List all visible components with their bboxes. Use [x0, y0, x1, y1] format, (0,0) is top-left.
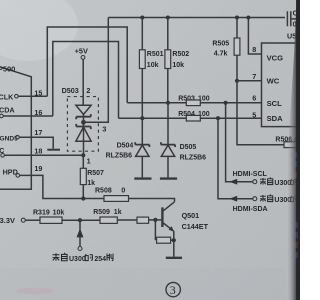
- arrow HDMI-SCL: [229, 179, 237, 185]
- svg-text:RLZ5B6: RLZ5B6: [180, 154, 207, 161]
- zener D505: [167, 103, 169, 145]
- wire CLK bridge up-over-down to SCL: [47, 27, 127, 103]
- ground stub bar pin17: [47, 149, 60, 151]
- connector P500 body: [0, 66, 31, 189]
- junction R507/HPD/R508: [81, 196, 85, 200]
- pin 18 terminal circle: [1, 154, 5, 158]
- resistor R502: [166, 16, 170, 20]
- wire pin7 WC: [237, 80, 262, 82]
- svg-text:6: 6: [252, 94, 256, 103]
- svg-text:4.7k: 4.7k: [214, 51, 228, 58]
- right dark band (book gutter): [288, 0, 300, 300]
- svg-text:R319: R319: [33, 210, 50, 217]
- wire HDMI-SCL takeoff: [226, 103, 253, 182]
- +5V terminal circle: [81, 56, 85, 60]
- resistor R507: [82, 155, 84, 168]
- page number circle 3: [166, 282, 180, 296]
- pin CLK terminal circle: [15, 94, 19, 98]
- svg-text:2: 2: [86, 86, 90, 95]
- resistor R505: [235, 16, 239, 20]
- svg-text:D504: D504: [117, 143, 134, 150]
- wire R508 to Q501 collector: [83, 199, 174, 202]
- wire +5V to D503 pin2: [82, 59, 84, 105]
- svg-text:3: 3: [170, 283, 176, 297]
- svg-text:10k: 10k: [147, 62, 159, 69]
- D503 zener 2 (bottom, cathode up): [76, 124, 91, 129]
- junction base node: [153, 218, 157, 222]
- svg-text:VCG: VCG: [267, 53, 284, 62]
- resistor R501: [140, 16, 144, 20]
- junction base line / U300-254 feed: [78, 218, 82, 222]
- svg-text:19: 19: [34, 164, 42, 173]
- resistor base-emitter (unlabeled): [154, 220, 156, 240]
- svg-text:10k: 10k: [172, 62, 184, 69]
- svg-text:254: 254: [94, 256, 106, 263]
- junction R505/WC/R506: [235, 79, 239, 83]
- wire GND5 pin17 to stub: [19, 137, 53, 148]
- svg-text:0: 0: [121, 188, 125, 195]
- svg-text:CDA: CDA: [0, 105, 15, 114]
- svg-text:R507: R507: [87, 170, 104, 177]
- svg-text:C144ET: C144ET: [182, 222, 209, 231]
- terminal from U300 pin254: [79, 220, 81, 246]
- D503 center junction dot: [81, 120, 86, 125]
- svg-text:18: 18: [34, 146, 42, 155]
- wire pin8 VCG from rail: [246, 16, 250, 20]
- junction pin18/D503/R507: [81, 153, 85, 157]
- wire D503 pin1 down: [83, 141, 85, 155]
- svg-text:Q501: Q501: [182, 211, 200, 220]
- D503 dashed package box: [67, 97, 98, 152]
- svg-text:17: 17: [34, 128, 42, 137]
- svg-text:+5V: +5V: [75, 47, 88, 56]
- svg-text:D505: D505: [180, 144, 197, 151]
- terminal HDMI-SDA: [253, 197, 257, 201]
- svg-text:R502: R502: [172, 51, 189, 58]
- svg-text:U300: U300: [69, 256, 86, 263]
- svg-text:1k: 1k: [87, 180, 95, 187]
- svg-text:R509: R509: [93, 209, 110, 216]
- svg-text:10k: 10k: [53, 210, 65, 217]
- wire D503 pin3 to top rail: [84, 18, 109, 123]
- svg-text:-3.3V: -3.3V: [0, 216, 15, 225]
- pin GND5 terminal circle: [16, 135, 20, 139]
- junction SCL/HDMI-SCL: [224, 101, 228, 105]
- zener D504: [141, 118, 143, 144]
- wire base node to Q501 base: [155, 219, 161, 221]
- wire HPD pin19 down to R508 row: [20, 175, 84, 198]
- terminal HDMI-SCL: [253, 180, 257, 184]
- junction R501/D504 on SDA: [140, 116, 144, 120]
- ground D504: [134, 177, 151, 179]
- junction SDA/HDMI-SDA: [216, 116, 220, 120]
- node label: from U300 pin 254 (CJK): [53, 253, 68, 261]
- pin HPD terminal circle: [16, 174, 20, 178]
- transistor Q2... Q501: [163, 202, 174, 211]
- svg-text:P500: P500: [0, 65, 15, 74]
- svg-text:WC: WC: [267, 76, 280, 85]
- wire HDMI-SDA takeoff: [218, 118, 253, 199]
- svg-text:1: 1: [87, 157, 91, 166]
- svg-text:5: 5: [252, 111, 256, 120]
- wire CDA pin16 to bridge: [3, 115, 53, 117]
- resistor base series (unlabeled): [137, 217, 149, 223]
- svg-text:SDA: SDA: [267, 114, 284, 123]
- wire pin18 to D503 pin1: [4, 154, 83, 156]
- wire CDA bridge up-over-down to SDA: [53, 42, 119, 119]
- resistor R506: [237, 81, 284, 145]
- arrow HDMI-SDA: [229, 196, 237, 202]
- svg-text:HDMI-SDA: HDMI-SDA: [233, 206, 268, 213]
- svg-text:R505: R505: [212, 40, 229, 47]
- capacitor C504 plates: [287, 11, 296, 26]
- svg-text:1k: 1k: [114, 209, 122, 216]
- op-amp U1... IC U500 box: [262, 43, 301, 127]
- svg-text:RLZ5B6: RLZ5B6: [106, 153, 133, 160]
- junction emitter node: [172, 238, 176, 242]
- svg-text:CLK: CLK: [0, 92, 14, 101]
- svg-text:3: 3: [102, 125, 106, 134]
- svg-text:R501: R501: [147, 51, 164, 58]
- svg-text:HDMI-SCL: HDMI-SCL: [233, 171, 268, 178]
- junction R502/D505 on SCL: [166, 101, 170, 105]
- ground D505: [160, 177, 177, 179]
- pin CDA terminal circle: [0, 114, 3, 118]
- faint colored print in gutter: [291, 152, 298, 258]
- svg-text:D503: D503: [62, 86, 79, 95]
- ground Q501 emitter: [166, 257, 182, 259]
- svg-text:7: 7: [252, 72, 256, 81]
- wire CLK pin15 to bridge: [18, 95, 47, 97]
- svg-text:R508: R508: [95, 188, 112, 195]
- svg-text:8: 8: [252, 45, 256, 54]
- wire SCL line: [127, 102, 261, 104]
- wire SDA line: [119, 117, 262, 119]
- svg-text:SCL: SCL: [267, 99, 283, 108]
- node label: from U300 (CJK) at SCL: [260, 177, 273, 184]
- D503 zener 1 (top, cathode down): [76, 105, 91, 114]
- top rail wire: [108, 17, 285, 19]
- node label: from U300 (CJK) at SDA: [260, 194, 273, 201]
